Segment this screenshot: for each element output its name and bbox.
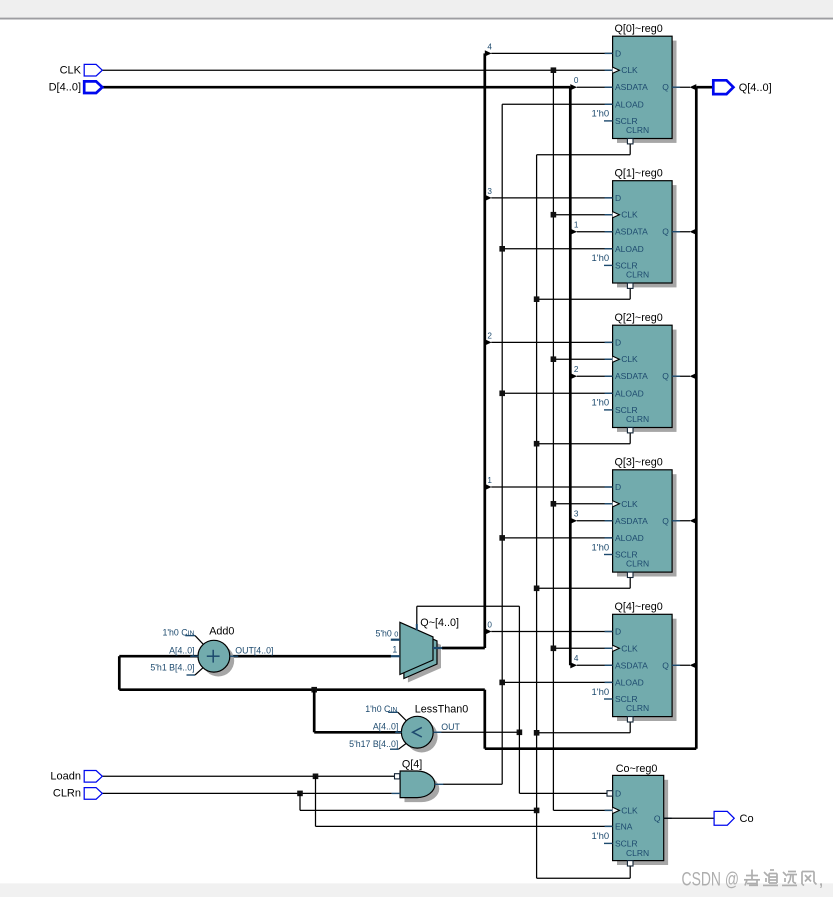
- svg-text:1'h0 CIN: 1'h0 CIN: [162, 627, 194, 637]
- output pin Q[4..0]: [713, 80, 771, 94]
- register Q[3]~reg0: [592, 457, 681, 578]
- svg-text:1'h0: 1'h0: [592, 831, 610, 842]
- svg-text:CLK: CLK: [621, 65, 638, 75]
- svg-text:D: D: [615, 627, 621, 637]
- svg-text:Q[3]~reg0: Q[3]~reg0: [615, 457, 663, 469]
- svg-text:ALOAD: ALOAD: [615, 99, 644, 109]
- svg-text:Co: Co: [740, 813, 754, 825]
- register Q[2]~reg0: [592, 312, 681, 433]
- svg-text:Co~reg0: Co~reg0: [616, 763, 658, 775]
- input pin Loadn: [50, 771, 102, 783]
- register Q[4]~reg0: [592, 601, 681, 722]
- svg-text:A[4..0]: A[4..0]: [169, 645, 194, 655]
- input pin CLRn: [53, 788, 102, 800]
- svg-text:CLK: CLK: [621, 210, 638, 220]
- svg-text:Q[0]~reg0: Q[0]~reg0: [615, 23, 663, 35]
- svg-text:1: 1: [487, 476, 492, 485]
- svg-text:1'h0: 1'h0: [592, 542, 610, 553]
- svg-text:CLRN: CLRN: [626, 848, 649, 858]
- register Q[0]~reg0: [592, 23, 681, 144]
- svg-text:CLRN: CLRN: [626, 703, 649, 713]
- svg-text:D: D: [615, 788, 621, 798]
- comparator LessThan0: [349, 703, 468, 752]
- svg-text:1'h0: 1'h0: [592, 253, 610, 264]
- svg-text:CLK: CLK: [621, 643, 638, 653]
- svg-text:Q[4]: Q[4]: [402, 759, 422, 771]
- register Co~reg0: [592, 763, 715, 866]
- svg-text:CLK: CLK: [621, 805, 638, 815]
- wire Q feedback bus to Add0 and LessThan0: [119, 87, 696, 749]
- svg-text:ASDATA: ASDATA: [615, 660, 648, 670]
- output pin Co: [714, 811, 753, 825]
- wire mux output to D rail: [442, 647, 485, 650]
- svg-text:CLRN: CLRN: [626, 125, 649, 135]
- register Q[1]~reg0: [592, 167, 681, 288]
- wire Add0 OUT to mux input 1: [230, 655, 391, 658]
- wire CLK net from pin to Q[0]~reg0 CLK: [102, 69, 612, 71]
- svg-text:4: 4: [574, 654, 579, 663]
- svg-text:Q[4..0]: Q[4..0]: [739, 82, 772, 94]
- mux Q~[4..0]: [375, 617, 459, 683]
- svg-text:Add0: Add0: [209, 626, 234, 638]
- wire CLRN rail from CLRn: [534, 144, 630, 878]
- svg-text:3: 3: [574, 510, 579, 519]
- svg-text:Q: Q: [662, 516, 669, 526]
- svg-text:D[4..0]: D[4..0]: [49, 81, 81, 93]
- svg-text:Q: Q: [662, 82, 669, 92]
- svg-text:4: 4: [487, 43, 492, 52]
- svg-text:1'h0: 1'h0: [592, 687, 610, 698]
- svg-text:0: 0: [574, 76, 579, 85]
- wire Loadn net: [102, 774, 612, 827]
- svg-text:ALOAD: ALOAD: [615, 388, 644, 398]
- svg-text:Q: Q: [654, 813, 661, 823]
- svg-text:ASDATA: ASDATA: [615, 227, 648, 237]
- wire ASDATA bus rail D[4..0]: [570, 76, 612, 669]
- svg-text:D: D: [615, 48, 621, 58]
- junction CLK rail taps: [551, 67, 613, 810]
- wire D[4..0] bus from pin: [102, 86, 570, 89]
- wire Q output taps into Q bus: [672, 84, 713, 668]
- svg-text:OUT: OUT: [441, 722, 460, 732]
- svg-text:Q~[4..0]: Q~[4..0]: [420, 617, 459, 629]
- wire CLRn net: [102, 791, 536, 811]
- svg-text:Q: Q: [662, 227, 669, 237]
- svg-text:OUT[4..0]: OUT[4..0]: [235, 645, 273, 655]
- svg-text:Q[2]~reg0: Q[2]~reg0: [615, 312, 663, 324]
- svg-text:CLRN: CLRN: [626, 269, 649, 279]
- svg-text:CLRN: CLRN: [626, 414, 649, 424]
- svg-text:1'h0: 1'h0: [592, 109, 610, 120]
- svg-text:ASDATA: ASDATA: [615, 516, 648, 526]
- wire mux output bus Q~[4..0] rail to D inputs: [485, 43, 613, 648]
- svg-text:2: 2: [487, 332, 492, 341]
- svg-text:D: D: [615, 193, 621, 203]
- svg-text:5'h17 B[4..0]: 5'h17 B[4..0]: [349, 739, 398, 749]
- svg-text:CLK: CLK: [60, 64, 82, 76]
- svg-text:Q[4]~reg0: Q[4]~reg0: [615, 601, 663, 613]
- svg-text:ASDATA: ASDATA: [615, 82, 648, 92]
- svg-text:2: 2: [574, 365, 579, 374]
- svg-text:0: 0: [487, 621, 492, 630]
- input pin D[4..0]: [49, 81, 103, 93]
- svg-text:Q: Q: [662, 660, 669, 670]
- svg-text:LessThan0: LessThan0: [415, 703, 468, 715]
- input pin CLK: [60, 64, 103, 76]
- wire LessThan0 OUT to select net: [417, 606, 607, 793]
- svg-text:ALOAD: ALOAD: [615, 244, 644, 254]
- svg-text:1'h0: 1'h0: [592, 398, 610, 409]
- watermark CSDN: [682, 869, 824, 891]
- and gate Q[4]: [392, 759, 444, 803]
- wire ALOAD rail from gate output: [443, 104, 613, 784]
- svg-text:5'h0 0: 5'h0 0: [375, 628, 398, 638]
- svg-text:Q[1]~reg0: Q[1]~reg0: [615, 167, 663, 179]
- svg-text:3: 3: [487, 187, 492, 196]
- adder Add0: [150, 626, 273, 677]
- svg-text:1'h0 CIN: 1'h0 CIN: [365, 704, 397, 714]
- svg-text:5'h1 B[4..0]: 5'h1 B[4..0]: [150, 663, 194, 673]
- svg-text:D: D: [615, 482, 621, 492]
- svg-text:Loadn: Loadn: [50, 771, 81, 783]
- svg-text:CLK: CLK: [621, 499, 638, 509]
- svg-text:ALOAD: ALOAD: [615, 677, 644, 687]
- svg-text:CLK: CLK: [621, 354, 638, 364]
- svg-text:1: 1: [574, 220, 579, 229]
- svg-text:ASDATA: ASDATA: [615, 371, 648, 381]
- svg-text:ENA: ENA: [615, 821, 633, 831]
- svg-text:Q: Q: [662, 371, 669, 381]
- svg-text:ALOAD: ALOAD: [615, 533, 644, 543]
- toolbar strip top: [0, 0, 833, 20]
- svg-text:CLRn: CLRn: [53, 788, 81, 800]
- status strip bottom: [0, 883, 833, 897]
- svg-text:A[4..0]: A[4..0]: [373, 722, 398, 732]
- svg-text:1: 1: [392, 644, 397, 654]
- svg-text:CLRN: CLRN: [626, 558, 649, 568]
- svg-text:,: ,: [818, 869, 824, 891]
- svg-text:CSDN @: CSDN @: [682, 869, 740, 891]
- svg-text:D: D: [615, 337, 621, 347]
